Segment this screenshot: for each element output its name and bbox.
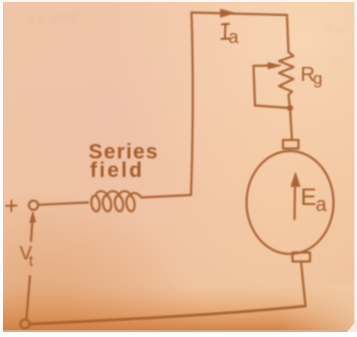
faint bleed-through text top-left bbox=[28, 10, 78, 25]
svg-text:t: t bbox=[29, 253, 34, 270]
wire: coil to right corner bbox=[142, 195, 192, 198]
svg-text:g: g bbox=[313, 69, 322, 88]
white page edges bbox=[0, 330, 357, 332]
wire: top horizontal bbox=[192, 13, 288, 16]
svg-text:nt u: nt u bbox=[322, 22, 342, 36]
Vt arrow pointing up to + terminal bbox=[31, 222, 32, 241]
node: + input terminal bbox=[29, 201, 38, 210]
label Ia : hand-drawn serif I bbox=[221, 24, 229, 39]
wire: right vertical from top corner to resistor bbox=[287, 15, 289, 52]
armature (machine body) bbox=[247, 151, 334, 254]
Ea arrow inside armature bbox=[293, 186, 296, 219]
inductor L1 series field winding (4 loops) bbox=[90, 195, 100, 212]
junction node: Rg bottom / diverter tap bbox=[287, 105, 293, 111]
wire: resistor bottom to junction bbox=[289, 95, 291, 108]
resistor Rg bbox=[279, 52, 294, 95]
svg-text:a: a bbox=[316, 194, 328, 216]
svg-text:a: a bbox=[229, 27, 240, 47]
current arrow Ia on top wire bbox=[221, 9, 235, 17]
node: bottom-left terminal bbox=[21, 320, 30, 329]
wire: left tall vertical (top loop left side) bbox=[191, 13, 193, 196]
faint bleed-through text top-right bbox=[322, 22, 344, 65]
wire: terminal to series field coil bbox=[38, 203, 88, 205]
wire: bottom brush down to bottom-right corner bbox=[301, 262, 306, 307]
wire: left lower vertical bbox=[27, 276, 31, 319]
svg-text:field: field bbox=[90, 159, 144, 182]
label + bbox=[6, 200, 17, 211]
brush: top armature terminal bbox=[283, 140, 299, 149]
svg-text:s a good: s a good bbox=[28, 10, 78, 25]
brush: bottom armature terminal bbox=[293, 253, 311, 262]
diverter loop bottom wire bbox=[255, 106, 290, 109]
svg-text:mr: mr bbox=[330, 51, 344, 65]
bottom wire bbox=[30, 306, 306, 324]
wire: junction down to top brush bbox=[290, 108, 292, 140]
diverter tap arrow into resistor bbox=[254, 64, 269, 66]
svg-text:E: E bbox=[301, 184, 317, 211]
diverter loop left vertical bbox=[254, 66, 256, 106]
